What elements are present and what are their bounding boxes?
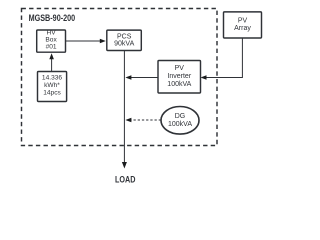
svg-text:DG: DG [175, 113, 186, 120]
svg-text:100kVA: 100kVA [167, 81, 191, 88]
svg-text:14pcs: 14pcs [43, 90, 61, 97]
wire HV Box to PCS [66, 39, 106, 44]
wire PV Array to PV Inverter [201, 38, 243, 80]
enclosure MGSB-90-200 (dashed boundary) [22, 9, 218, 146]
PV Inverter 100kVA [158, 61, 201, 94]
svg-text:LOAD: LOAD [115, 175, 136, 185]
svg-text:Inverter: Inverter [167, 73, 191, 80]
wire DG to AC bus (dashed) [125, 118, 161, 123]
PCS 90kVA [107, 30, 142, 50]
svg-text:PV: PV [238, 17, 248, 24]
svg-text:MGSB-90-200: MGSB-90-200 [29, 13, 76, 23]
svg-text:90kVA: 90kVA [114, 40, 134, 47]
svg-text:14.336: 14.336 [42, 75, 63, 82]
svg-text:Box: Box [45, 36, 57, 43]
wire PCS to LOAD (AC bus) [122, 51, 127, 169]
svg-text:kWh*: kWh* [44, 82, 60, 89]
svg-text:PV: PV [175, 65, 185, 72]
svg-text:#01: #01 [46, 44, 57, 51]
PV Array [224, 12, 262, 38]
svg-text:Array: Array [234, 25, 251, 32]
DG 100kVA (generator) [161, 107, 199, 135]
wire battery to HV Box [49, 53, 54, 71]
wire PV Inverter to AC bus [125, 75, 158, 80]
svg-text:HV: HV [47, 29, 57, 36]
svg-text:100kVA: 100kVA [168, 121, 192, 128]
battery 14.336 kWh x 14pcs [38, 72, 67, 102]
HV Box #01 [37, 29, 66, 52]
